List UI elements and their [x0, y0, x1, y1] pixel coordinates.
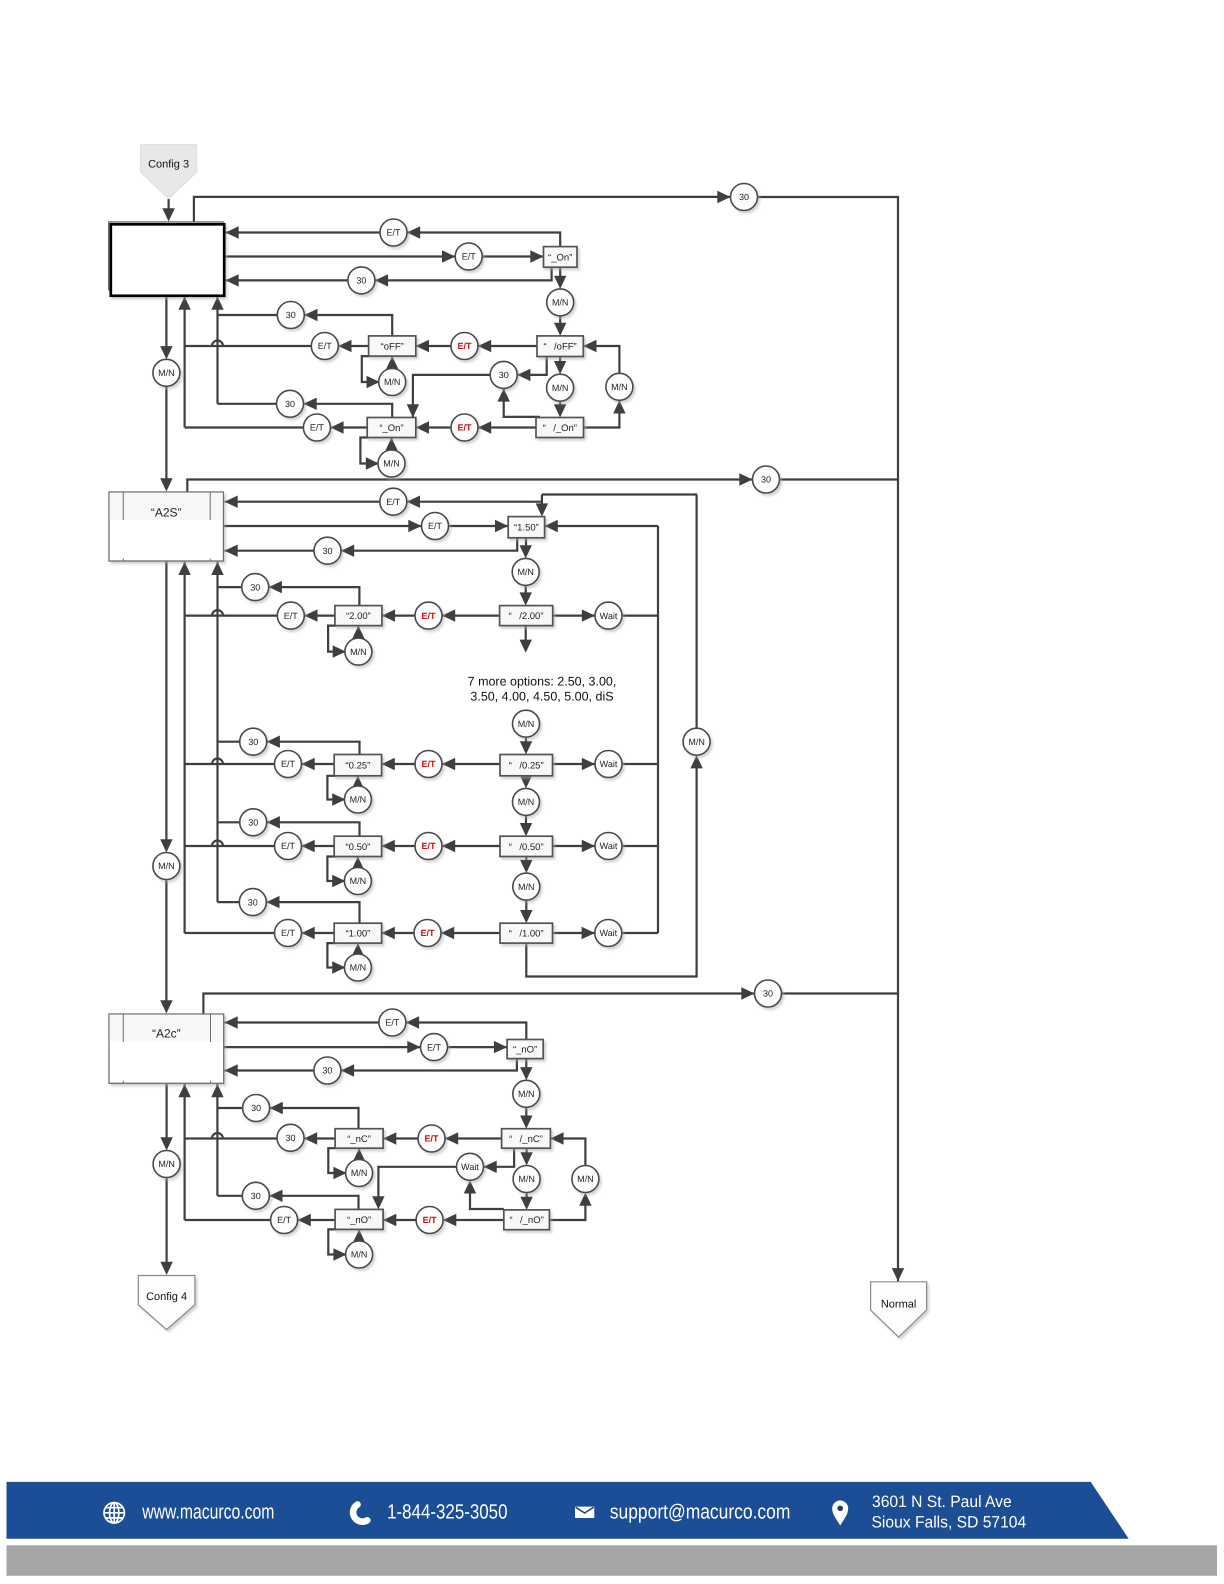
svg-text:M/N: M/N — [552, 383, 569, 393]
svg-text:E/T: E/T — [421, 759, 436, 769]
svg-text:M/N: M/N — [158, 1159, 175, 1169]
svg-text:E/T: E/T — [421, 841, 436, 851]
svg-text:Wait: Wait — [600, 759, 618, 769]
svg-text:M/N: M/N — [518, 882, 535, 892]
svg-text:1-844-325-3050: 1-844-325-3050 — [387, 1500, 507, 1523]
svg-text:3.50, 4.00, 4.50, 5.00, diS: 3.50, 4.00, 4.50, 5.00, diS — [470, 690, 613, 704]
svg-text:E/T: E/T — [457, 423, 472, 433]
svg-text:M/N: M/N — [158, 861, 175, 871]
svg-text:M/N: M/N — [518, 719, 535, 729]
svg-text:“1.00”: “1.00” — [345, 929, 370, 940]
svg-text:M/N: M/N — [518, 797, 535, 807]
svg-text:E/T: E/T — [318, 341, 333, 351]
svg-text:E/T: E/T — [420, 928, 435, 938]
svg-text:E/T: E/T — [284, 611, 299, 621]
svg-text:M/N: M/N — [517, 567, 534, 577]
svg-text:Wait: Wait — [600, 841, 618, 851]
svg-text:30: 30 — [763, 989, 773, 999]
svg-text:E/T: E/T — [386, 228, 401, 238]
svg-text:Config 3: Config 3 — [148, 159, 189, 171]
svg-text:M/N: M/N — [518, 1174, 535, 1184]
svg-text:30: 30 — [248, 818, 258, 828]
svg-text:“2.00”: “2.00” — [346, 611, 371, 622]
svg-text:30: 30 — [251, 1103, 261, 1113]
svg-text:Wait: Wait — [600, 611, 618, 621]
svg-text:M/N: M/N — [350, 876, 367, 886]
svg-text:M/N: M/N — [158, 368, 175, 378]
svg-text:“_nO”: “_nO” — [347, 1215, 371, 1226]
svg-text:30: 30 — [248, 737, 258, 747]
svg-text:M/N: M/N — [350, 963, 367, 973]
svg-text:“ /oFF”: “ /oFF” — [543, 342, 576, 353]
svg-text:“0.25”: “0.25” — [345, 761, 370, 772]
svg-text:E/T: E/T — [386, 497, 401, 507]
svg-text:M/N: M/N — [351, 1168, 368, 1178]
svg-text:E/T: E/T — [385, 1018, 400, 1028]
svg-text:30: 30 — [499, 370, 509, 380]
svg-text:E/T: E/T — [281, 759, 296, 769]
svg-text:Sioux Falls, SD 57104: Sioux Falls, SD 57104 — [872, 1514, 1027, 1532]
svg-text:M/N: M/N — [518, 1089, 535, 1099]
svg-text:M/N: M/N — [383, 459, 400, 469]
svg-text:Wait: Wait — [599, 928, 617, 938]
svg-text:“ /_On”: “ /_On” — [543, 423, 577, 434]
svg-text:“A2c”: “A2c” — [152, 1027, 181, 1041]
svg-text:support@macurco.com: support@macurco.com — [610, 1500, 791, 1523]
svg-text:E/T: E/T — [427, 1042, 442, 1052]
svg-text:E/T: E/T — [421, 611, 436, 621]
svg-text:30: 30 — [286, 310, 296, 320]
svg-text:30: 30 — [248, 897, 258, 907]
svg-text:E/T: E/T — [281, 841, 296, 851]
svg-text:“ /2.00”: “ /2.00” — [509, 611, 544, 622]
svg-text:“A2S”: “A2S” — [151, 506, 182, 520]
svg-text:“_On”: “_On” — [548, 252, 572, 263]
svg-text:E/T: E/T — [462, 252, 477, 262]
svg-text:30: 30 — [739, 192, 749, 202]
svg-text:“_nC”: “_nC” — [347, 1134, 371, 1145]
svg-text:“1.50”: “1.50” — [514, 523, 539, 534]
svg-text:3601 N St. Paul Ave: 3601 N St. Paul Ave — [872, 1493, 1012, 1511]
svg-text:M/N: M/N — [384, 377, 401, 387]
svg-text:30: 30 — [322, 546, 332, 556]
svg-text:Wait: Wait — [461, 1162, 479, 1172]
svg-text:7 more options: 2.50, 3.00,: 7 more options: 2.50, 3.00, — [468, 675, 617, 689]
svg-text:M/N: M/N — [350, 647, 367, 657]
svg-text:30: 30 — [322, 1066, 332, 1076]
svg-text:E/T: E/T — [310, 423, 325, 433]
svg-text:www.macurco.com: www.macurco.com — [142, 1500, 275, 1523]
svg-text:E/T: E/T — [424, 1134, 439, 1144]
svg-text:“oFF”: “oFF” — [381, 341, 404, 352]
svg-text:M/N: M/N — [577, 1174, 594, 1184]
svg-text:“0.50”: “0.50” — [345, 842, 370, 853]
svg-text:30: 30 — [250, 582, 260, 592]
svg-text:“_nO”: “_nO” — [513, 1045, 537, 1056]
svg-text:30: 30 — [285, 399, 295, 409]
svg-text:M/N: M/N — [552, 298, 569, 308]
svg-text:30: 30 — [761, 475, 771, 485]
svg-text:“ /0.25”: “ /0.25” — [509, 761, 544, 772]
svg-text:“ /1.00”: “ /1.00” — [509, 929, 544, 940]
svg-text:E/T: E/T — [428, 521, 443, 531]
svg-text:Normal: Normal — [881, 1299, 916, 1311]
svg-text:30: 30 — [251, 1191, 261, 1201]
svg-text:E/T: E/T — [457, 341, 472, 351]
svg-text:Config 4: Config 4 — [146, 1291, 187, 1303]
svg-text:M/N: M/N — [351, 1250, 368, 1260]
svg-text:“ /_nO”: “ /_nO” — [509, 1215, 543, 1226]
svg-text:E/T: E/T — [423, 1215, 438, 1225]
svg-text:M/N: M/N — [350, 795, 367, 805]
svg-text:E/T: E/T — [281, 928, 296, 938]
svg-text:“ /_nC”: “ /_nC” — [509, 1134, 543, 1145]
svg-text:E/T: E/T — [277, 1215, 292, 1225]
svg-text:“ /0.50”: “ /0.50” — [509, 842, 544, 853]
svg-text:“_On”: “_On” — [379, 423, 403, 434]
svg-text:M/N: M/N — [611, 382, 628, 392]
svg-text:30: 30 — [356, 276, 366, 286]
svg-text:30: 30 — [285, 1133, 295, 1143]
svg-text:M/N: M/N — [688, 737, 705, 747]
